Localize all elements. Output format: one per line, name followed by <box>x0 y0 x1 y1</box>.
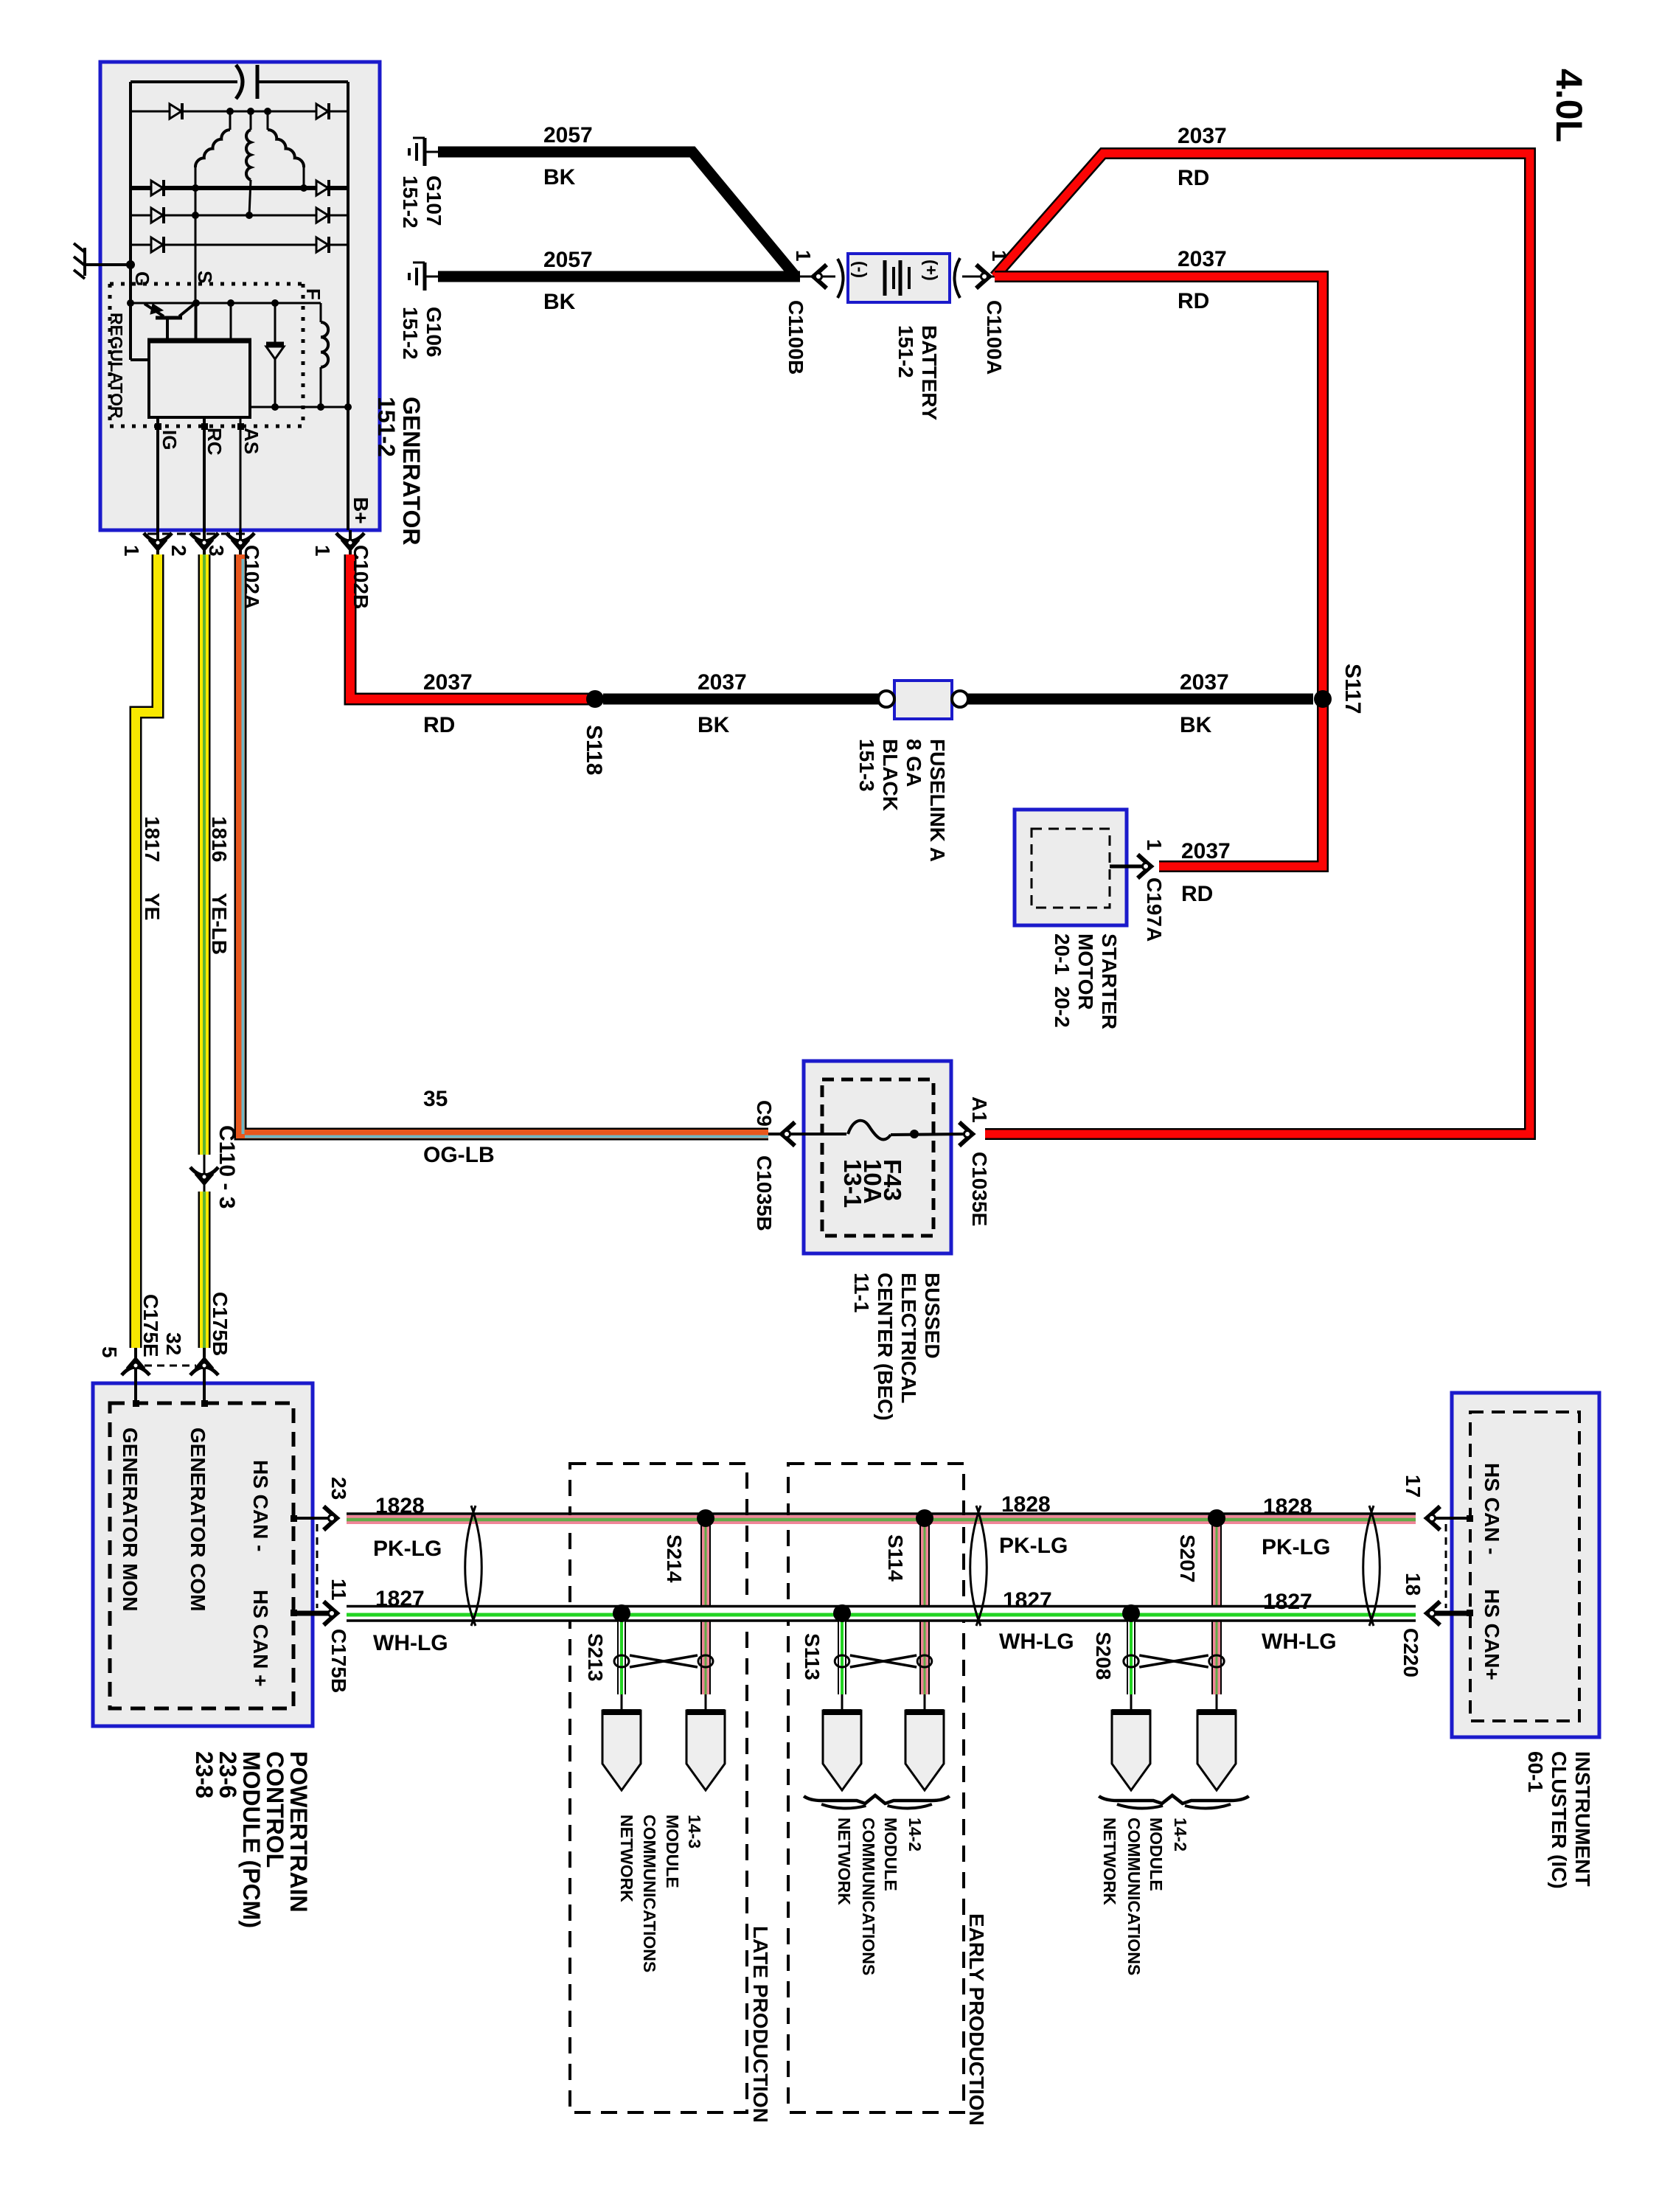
svg-text:RD: RD <box>1178 289 1209 313</box>
svg-text:BATTERY: BATTERY <box>918 325 941 420</box>
svg-text:C1100B: C1100B <box>785 300 807 375</box>
svg-text:G: G <box>131 271 153 286</box>
svg-text:14-2: 14-2 <box>905 1818 925 1851</box>
svg-text:BK: BK <box>543 290 576 314</box>
svg-text:1: 1 <box>120 545 143 557</box>
svg-text:C102A: C102A <box>240 545 263 609</box>
svg-text:C9: C9 <box>753 1100 776 1127</box>
svg-text:8 GA: 8 GA <box>902 739 925 787</box>
svg-text:WH-LG: WH-LG <box>373 1631 448 1655</box>
svg-text:5: 5 <box>98 1346 121 1358</box>
svg-text:GENERATOR MON: GENERATOR MON <box>119 1427 142 1611</box>
svg-text:BLACK: BLACK <box>879 739 902 811</box>
svg-text:11: 11 <box>327 1579 350 1601</box>
svg-text:INSTRUMENT: INSTRUMENT <box>1571 1751 1594 1887</box>
svg-text:151-2: 151-2 <box>399 175 422 229</box>
svg-text:C1035B: C1035B <box>753 1155 776 1231</box>
svg-text:NETWORK: NETWORK <box>617 1815 636 1902</box>
svg-text:3: 3 <box>205 545 228 557</box>
svg-text:YE-LB: YE-LB <box>208 893 231 955</box>
svg-text:CENTER (BEC): CENTER (BEC) <box>874 1273 897 1421</box>
svg-text:18: 18 <box>1402 1573 1425 1596</box>
svg-text:1827: 1827 <box>375 1587 425 1611</box>
svg-text:151-2: 151-2 <box>894 325 917 378</box>
svg-text:BK: BK <box>1180 713 1212 737</box>
svg-text:WH-LG: WH-LG <box>1262 1630 1337 1654</box>
svg-text:STARTER: STARTER <box>1098 933 1121 1029</box>
svg-text:C1100A: C1100A <box>983 300 1006 375</box>
svg-text:POWERTRAIN: POWERTRAIN <box>285 1751 312 1913</box>
svg-text:1: 1 <box>311 545 334 557</box>
svg-text:13-1: 13-1 <box>839 1159 866 1208</box>
svg-text:S113: S113 <box>801 1633 824 1680</box>
svg-text:RC: RC <box>204 428 226 456</box>
svg-text:S213: S213 <box>584 1633 607 1681</box>
svg-text:2057: 2057 <box>543 248 593 272</box>
svg-text:1828: 1828 <box>375 1494 425 1518</box>
svg-text:2037: 2037 <box>1178 247 1227 271</box>
svg-text:AS: AS <box>240 428 262 454</box>
svg-text:S118: S118 <box>582 725 606 775</box>
svg-text:17: 17 <box>1402 1475 1425 1498</box>
svg-text:S117: S117 <box>1340 664 1365 714</box>
svg-text:2057: 2057 <box>543 123 593 147</box>
svg-text:MOTOR: MOTOR <box>1074 933 1097 1010</box>
svg-text:PK-LG: PK-LG <box>1262 1535 1330 1559</box>
svg-text:CONTROL: CONTROL <box>262 1751 288 1868</box>
svg-text:20-1 20-2: 20-1 20-2 <box>1051 933 1074 1028</box>
svg-text:RD: RD <box>1181 882 1213 906</box>
svg-text:1817: 1817 <box>141 816 164 862</box>
svg-text:F: F <box>302 288 324 300</box>
svg-text:RD: RD <box>1178 166 1209 190</box>
svg-text:1816: 1816 <box>208 816 231 862</box>
svg-text:2037: 2037 <box>423 670 473 695</box>
svg-text:C175B: C175B <box>209 1292 232 1356</box>
svg-text:S114: S114 <box>884 1534 907 1582</box>
svg-text:GENERATOR COM: GENERATOR COM <box>187 1427 209 1611</box>
svg-text:C220: C220 <box>1399 1628 1422 1677</box>
svg-text:S: S <box>194 271 216 283</box>
svg-text:32: 32 <box>162 1332 185 1355</box>
svg-text:BK: BK <box>698 713 730 737</box>
svg-text:PK-LG: PK-LG <box>373 1537 442 1561</box>
svg-text:ELECTRICAL: ELECTRICAL <box>897 1273 920 1403</box>
svg-text:23-8: 23-8 <box>191 1751 218 1798</box>
svg-text:OG-LB: OG-LB <box>423 1143 495 1167</box>
svg-text:60-1: 60-1 <box>1524 1751 1547 1792</box>
svg-text:PK-LG: PK-LG <box>999 1534 1068 1558</box>
svg-text:YE: YE <box>141 893 164 920</box>
svg-text:1: 1 <box>988 250 1011 262</box>
svg-text:EARLY PRODUCTION: EARLY PRODUCTION <box>965 1913 988 2126</box>
svg-text:2037: 2037 <box>1180 670 1229 695</box>
svg-text:HS CAN -: HS CAN - <box>1481 1463 1503 1554</box>
svg-text:C197A: C197A <box>1143 877 1166 942</box>
svg-text:C110 - 3: C110 - 3 <box>215 1125 239 1208</box>
svg-text:B+: B+ <box>349 497 372 524</box>
svg-text:1: 1 <box>792 250 815 262</box>
svg-text:C1035E: C1035E <box>968 1152 991 1226</box>
svg-text:REGULATOR: REGULATOR <box>107 313 126 419</box>
svg-text:151-2: 151-2 <box>373 397 400 457</box>
svg-text:S208: S208 <box>1092 1632 1115 1680</box>
svg-text:S214: S214 <box>663 1534 686 1583</box>
svg-text:NETWORK: NETWORK <box>835 1818 854 1905</box>
svg-text:2037: 2037 <box>1178 124 1227 148</box>
svg-text:WH-LG: WH-LG <box>999 1630 1074 1654</box>
svg-text:COMMUNICATIONS: COMMUNICATIONS <box>1124 1818 1144 1975</box>
svg-text:IG: IG <box>159 430 181 450</box>
svg-text:MODULE: MODULE <box>1147 1818 1166 1891</box>
svg-text:C175E: C175E <box>139 1294 162 1357</box>
svg-text:11-1: 11-1 <box>850 1273 873 1313</box>
svg-text:MODULE (PCM): MODULE (PCM) <box>238 1751 265 1928</box>
svg-text:FUSELINK A: FUSELINK A <box>926 739 949 862</box>
svg-text:151-3: 151-3 <box>855 739 878 792</box>
svg-text:G106: G106 <box>422 307 445 358</box>
svg-text:RD: RD <box>423 713 455 737</box>
svg-text:1828: 1828 <box>1263 1495 1312 1519</box>
svg-text:1827: 1827 <box>1003 1588 1052 1613</box>
svg-text:HS CAN +: HS CAN + <box>249 1590 272 1686</box>
svg-text:2: 2 <box>167 545 190 557</box>
svg-text:35: 35 <box>423 1087 448 1111</box>
svg-text:COMMUNICATIONS: COMMUNICATIONS <box>640 1815 659 1972</box>
svg-text:A1: A1 <box>968 1096 991 1123</box>
svg-text:NETWORK: NETWORK <box>1100 1818 1119 1905</box>
svg-text:G107: G107 <box>422 175 445 226</box>
svg-text:GENERATOR: GENERATOR <box>398 397 425 546</box>
svg-text:MODULE: MODULE <box>663 1815 682 1888</box>
svg-text:23-6: 23-6 <box>215 1751 241 1798</box>
svg-text:COMMUNICATIONS: COMMUNICATIONS <box>859 1818 878 1975</box>
svg-text:4.0L: 4.0L <box>1548 69 1590 142</box>
svg-text:2037: 2037 <box>698 670 747 695</box>
svg-text:14-2: 14-2 <box>1171 1818 1190 1851</box>
svg-text:MODULE: MODULE <box>881 1818 900 1891</box>
svg-text:(-): (-) <box>851 261 870 278</box>
svg-text:(+): (+) <box>922 260 941 281</box>
svg-text:1827: 1827 <box>1263 1590 1312 1614</box>
svg-text:HS CAN+: HS CAN+ <box>1481 1589 1503 1680</box>
svg-text:1: 1 <box>1143 839 1166 851</box>
svg-text:HS CAN -: HS CAN - <box>249 1460 272 1551</box>
svg-text:C175B: C175B <box>327 1629 350 1693</box>
svg-text:C102B: C102B <box>349 545 372 609</box>
svg-text:CLUSTER (IC): CLUSTER (IC) <box>1548 1751 1571 1889</box>
svg-text:1828: 1828 <box>1001 1492 1051 1517</box>
svg-text:S207: S207 <box>1176 1534 1199 1582</box>
svg-text:151-2: 151-2 <box>399 307 422 360</box>
svg-text:BUSSED: BUSSED <box>921 1273 944 1359</box>
svg-text:LATE PRODUCTION: LATE PRODUCTION <box>749 1926 772 2123</box>
svg-text:14-3: 14-3 <box>685 1815 704 1848</box>
svg-text:BK: BK <box>543 165 576 189</box>
svg-text:2037: 2037 <box>1181 839 1231 863</box>
svg-text:23: 23 <box>327 1477 350 1500</box>
